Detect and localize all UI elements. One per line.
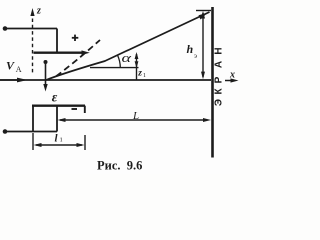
svg-text:1: 1 <box>143 73 146 79</box>
plus sign <box>72 37 79 39</box>
svg-text:А: А <box>214 61 225 68</box>
svg-text:Р: Р <box>214 76 225 83</box>
L dimension line <box>60 119 204 121</box>
svg-text:z: z <box>36 6 41 17</box>
l1 witness left <box>32 133 34 150</box>
z axis dashed line <box>32 19 34 75</box>
field arrow dot <box>44 60 48 64</box>
svg-text:К: К <box>214 88 225 95</box>
emf box bottom <box>33 131 57 133</box>
l1 witness right <box>84 135 86 150</box>
wire top horizontal <box>7 28 58 30</box>
bottom wire <box>7 131 34 133</box>
wire top vertical <box>56 29 58 53</box>
z1 dimension arrow <box>136 54 138 80</box>
svg-text:э: э <box>194 52 197 60</box>
Va velocity arrow <box>0 79 19 81</box>
bottom terminal dot <box>3 129 8 134</box>
svg-text:L: L <box>132 110 139 122</box>
top plate <box>34 52 84 54</box>
svg-text:ε: ε <box>52 90 58 105</box>
minus sign <box>72 108 78 110</box>
dashed trajectory <box>53 40 100 79</box>
svg-text:x: x <box>229 70 235 81</box>
angle arc <box>118 55 121 67</box>
svg-text:z: z <box>137 69 142 79</box>
emf box right <box>56 106 58 132</box>
svg-text:h: h <box>187 42 194 56</box>
EKRAN vertical text <box>214 47 225 106</box>
svg-text:V: V <box>6 59 15 73</box>
emf box left <box>32 106 34 132</box>
svg-text:A: A <box>16 65 22 74</box>
h witness line top <box>196 10 211 12</box>
top terminal dot <box>3 26 8 31</box>
svg-text:Н: Н <box>214 47 225 54</box>
svg-text:Рис. 9.6: Рис. 9.6 <box>97 159 142 173</box>
z axis arrowhead <box>30 8 34 16</box>
x axis main line <box>0 79 211 81</box>
screen line <box>211 7 214 158</box>
l1 dimension line <box>36 144 82 146</box>
svg-text:α: α <box>122 50 133 65</box>
h dimension line <box>202 13 204 77</box>
bottom plate stub <box>84 106 86 113</box>
svg-text:Э: Э <box>214 99 225 106</box>
reference line A <box>90 67 139 69</box>
beam trajectory parabola <box>46 12 210 80</box>
svg-text:1: 1 <box>60 137 63 144</box>
x axis after screen <box>225 80 232 82</box>
beam arrowhead near screen <box>199 13 208 20</box>
bottom plate <box>32 105 85 107</box>
field arrow <box>45 62 47 85</box>
